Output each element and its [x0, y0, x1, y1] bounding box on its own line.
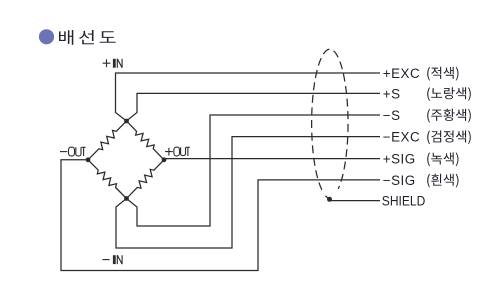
resistor R4 (bridge bottom-right arm)	[127, 160, 165, 199]
node left (-OUT junction)	[86, 157, 91, 162]
wire +S : top node up-right then right to label	[127, 93, 381, 121]
cable shield ellipse (dashed)	[312, 49, 348, 190]
label -OUT	[60, 147, 86, 156]
resistor R3 (bridge bottom-left arm)	[88, 160, 127, 199]
wire -SIG : left node left, down, along bottom, up to label row	[61, 160, 380, 271]
svg-text:−SIG: −SIG	[383, 173, 416, 188]
wire -IN / -EXC : bottom node down-left, down, right, up to label row	[116, 137, 380, 248]
node bottom (bridge -IN junction)	[124, 196, 129, 201]
shield junction dot at ellipse bottom	[327, 197, 332, 202]
title text 배선도	[59, 30, 116, 45]
label +IN	[103, 59, 123, 68]
svg-text:−EXC: −EXC	[383, 130, 420, 145]
svg-text:−S: −S	[383, 108, 401, 123]
resistor R1 (bridge top-left arm)	[88, 121, 127, 160]
title bullet	[39, 29, 54, 44]
resistor R2 (bridge top-right arm)	[127, 121, 165, 160]
svg-text:+EXC: +EXC	[383, 66, 420, 81]
shield arrow tail	[325, 196, 329, 199]
node top (bridge +IN junction)	[124, 119, 129, 124]
svg-text:SHIELD: SHIELD	[382, 194, 426, 209]
svg-text:+SIG: +SIG	[383, 152, 416, 167]
label +OUT	[165, 147, 190, 156]
label -IN	[102, 255, 122, 264]
node right (+OUT junction)	[162, 157, 167, 162]
wire +SIG : right node to label	[164, 159, 380, 160]
wire +IN / +EXC : top node up-left then right to label	[116, 73, 381, 121]
wire -S : bottom node down-right, down, right, up to label row	[127, 115, 381, 226]
wire SHIELD	[330, 200, 381, 202]
svg-text:+S: +S	[383, 86, 401, 101]
